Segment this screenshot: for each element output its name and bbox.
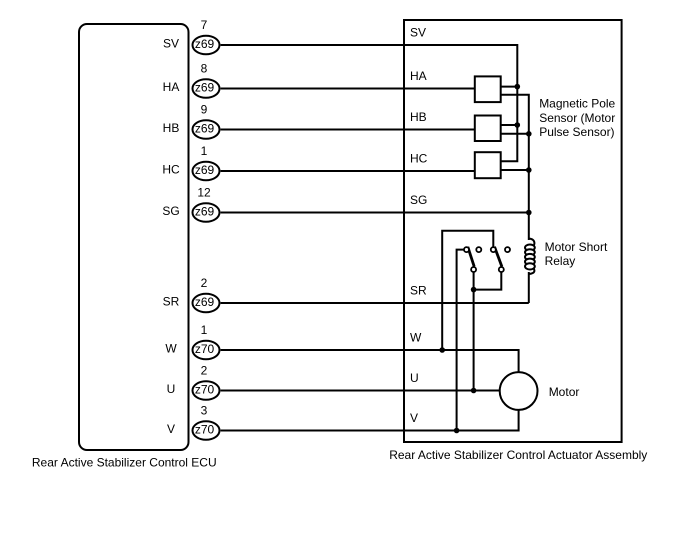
relay switch 2 contact circles	[491, 247, 510, 272]
wire SG ECU to actuator	[221, 212, 529, 214]
svg-text:V: V	[167, 422, 175, 436]
svg-text:1: 1	[201, 323, 208, 337]
junction dot / U wire	[471, 388, 477, 394]
svg-text:SG: SG	[162, 204, 179, 218]
svg-text:z70: z70	[195, 342, 215, 356]
junction dot bus B / HB stub	[526, 131, 532, 137]
svg-text:U: U	[410, 371, 419, 385]
svg-text:V: V	[410, 411, 418, 425]
junction dot contacts bottom	[471, 287, 477, 293]
svg-text:9: 9	[201, 103, 208, 117]
svg-text:z69: z69	[195, 163, 215, 177]
svg-text:z69: z69	[195, 204, 215, 218]
label Motor Short Relay	[545, 240, 608, 268]
wire contacts junction down to U wire	[473, 290, 475, 391]
relay switch 1 contact circles	[464, 247, 481, 272]
svg-text:U: U	[167, 382, 176, 396]
junction dot bus B / SG wire	[526, 210, 532, 216]
magnetic pole sensor square HB	[475, 116, 501, 142]
wire SV ECU to actuator	[221, 44, 404, 46]
svg-text:z69: z69	[195, 295, 215, 309]
svg-text:7: 7	[201, 18, 208, 32]
wire HC ECU to actuator	[221, 170, 475, 172]
svg-text:HB: HB	[163, 121, 180, 135]
magnetic pole sensor square HA	[475, 76, 501, 102]
svg-text:HC: HC	[162, 163, 180, 177]
junction dot switch lead / V wire	[454, 428, 460, 434]
svg-text:Rear Active Stabilizer Control: Rear Active Stabilizer Control Actuator …	[389, 448, 647, 462]
connector oval z69 pin 8	[193, 79, 220, 98]
svg-text:1: 1	[201, 144, 208, 158]
svg-text:HB: HB	[410, 110, 427, 124]
svg-text:SR: SR	[163, 295, 180, 309]
svg-text:Motor: Motor	[549, 385, 580, 399]
connector oval z69 pin 1	[193, 162, 220, 181]
connector oval z69 pin 7	[193, 36, 220, 55]
svg-text:8: 8	[201, 62, 208, 76]
junction dot relay left / W wire	[439, 347, 445, 353]
svg-text:z69: z69	[195, 80, 215, 94]
svg-text:W: W	[165, 342, 177, 356]
wire sensor HA upper stub to bus A	[501, 86, 518, 88]
svg-text:Rear Active Stabilizer Control: Rear Active Stabilizer Control ECU	[32, 455, 217, 469]
relay switch 2 blade	[495, 247, 502, 267]
svg-text:3: 3	[201, 404, 208, 418]
connector oval z69 pin 12	[193, 203, 220, 222]
svg-text:HC: HC	[410, 152, 428, 166]
svg-text:SV: SV	[163, 37, 179, 51]
motor M1 circle	[500, 372, 538, 410]
svg-text:Pulse Sensor): Pulse Sensor)	[539, 125, 614, 139]
svg-text:z70: z70	[195, 422, 215, 436]
svg-text:12: 12	[197, 186, 211, 200]
wire SV internal with vertical bus A	[404, 45, 517, 161]
svg-text:SV: SV	[410, 26, 426, 40]
junction dot bus A / HB stub	[515, 122, 521, 128]
relay switch 1 blade	[468, 247, 474, 267]
wire V ECU to motor bottom	[221, 411, 519, 431]
svg-text:HA: HA	[163, 80, 180, 94]
relay top wire	[442, 231, 493, 350]
wire sensor HC lower stub to bus B	[501, 169, 529, 171]
relay contacts bottom link	[474, 270, 502, 290]
wire HB ECU to actuator	[221, 129, 475, 131]
svg-text:SG: SG	[410, 193, 427, 207]
actuator box (Rear Active Stabilizer Control Actuator Assembly)	[404, 20, 622, 442]
wire HA ECU to actuator	[221, 88, 475, 90]
ECU box (Rear Active Stabilizer Control ECU)	[79, 24, 189, 450]
connector oval z70 pin 3	[193, 421, 220, 440]
svg-text:Sensor (Motor: Sensor (Motor	[539, 111, 615, 125]
wire sensor HB lower stub to bus B	[501, 133, 529, 135]
svg-text:z69: z69	[195, 121, 215, 135]
junction dot bus A / HA stub	[515, 84, 521, 90]
junction dot bus B / HC stub	[526, 167, 532, 173]
wire sensor HA lower stub to bus B	[501, 95, 529, 240]
svg-text:2: 2	[201, 276, 208, 290]
wire SR ECU to relay coil	[221, 302, 529, 304]
magnetic pole sensor square HC	[475, 152, 501, 178]
connector oval z70 pin 2	[193, 381, 220, 400]
wire sensor HB upper stub to bus A	[501, 124, 518, 126]
svg-text:z70: z70	[195, 382, 215, 396]
wire U ECU to motor left	[221, 390, 500, 392]
wire coil bottom to SR	[528, 272, 530, 303]
svg-text:Motor Short: Motor Short	[545, 240, 608, 254]
connector oval z69 pin 9	[193, 120, 220, 139]
svg-text:z69: z69	[195, 37, 215, 51]
svg-text:Relay: Relay	[545, 254, 576, 268]
relay coil L1	[525, 239, 535, 275]
svg-text:HA: HA	[410, 69, 427, 83]
svg-text:W: W	[410, 331, 422, 345]
connector oval z70 pin 1	[193, 341, 220, 360]
svg-text:SR: SR	[410, 284, 427, 298]
connector oval z69 pin 2	[193, 294, 220, 313]
label Magnetic Pole Sensor (Motor Pulse Sensor)	[539, 97, 615, 139]
relay switch 1 left lead down to V wire	[457, 250, 464, 431]
wire W ECU to motor top	[221, 350, 519, 372]
svg-text:2: 2	[201, 364, 208, 378]
svg-text:Magnetic Pole: Magnetic Pole	[539, 97, 615, 111]
